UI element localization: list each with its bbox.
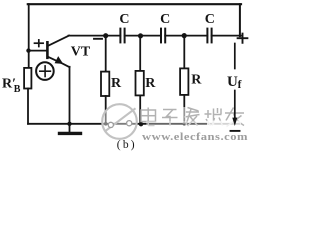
resistor R2	[136, 71, 144, 96]
watermark veils	[183, 107, 186, 124]
transistor VT emitter lead with arrow	[48, 57, 70, 67]
svg-text:B: B	[14, 84, 21, 95]
plus sign at output node	[238, 37, 248, 39]
node dot R3 bottom	[183, 122, 187, 126]
wire emitter vertical to ground rail	[69, 67, 71, 124]
wire R2 top lead	[139, 36, 141, 71]
wire R3 top lead	[183, 36, 185, 69]
transistor VT collector lead	[48, 36, 69, 46]
svg-text:www.elecfans.com: www.elecfans.com	[142, 132, 248, 143]
capacitor C1 plates	[119, 29, 121, 43]
node dot R3 top	[182, 33, 187, 38]
wire right vertical from top rail to output node	[239, 4, 241, 36]
wire left vertical upper (top rail to base node)	[28, 4, 30, 68]
wire collector / capacitor line segments	[69, 35, 121, 37]
svg-text:R: R	[191, 73, 202, 88]
capacitor C2 plates	[160, 29, 162, 43]
svg-text:f: f	[238, 79, 242, 91]
resistor R3	[180, 68, 188, 95]
wire base lead	[29, 50, 47, 52]
capacitor C3 plates	[206, 29, 208, 43]
wire R3 bottom lead	[183, 95, 185, 124]
svg-text:R: R	[145, 76, 156, 91]
wire R2 bottom lead	[139, 95, 141, 124]
wire top feedback rail	[28, 3, 241, 5]
source circle symbol with plus cross	[36, 62, 54, 80]
minus sign at collector node	[94, 38, 102, 40]
node dot collector/R1	[103, 33, 108, 38]
watermark chinese outlined glyphs	[141, 108, 244, 127]
plus sign at base	[35, 42, 44, 44]
wire R1 top lead	[105, 36, 107, 72]
minus sign at bottom right	[231, 130, 240, 132]
svg-text:C: C	[119, 12, 129, 27]
node dot R2 bottom	[139, 122, 143, 126]
svg-text:C: C	[160, 12, 170, 27]
wire R1 bottom lead	[105, 96, 107, 124]
node dot R2 top	[138, 33, 143, 38]
arrow Uf upper shaft	[234, 44, 236, 69]
svg-text:R: R	[111, 76, 122, 91]
svg-text:C: C	[205, 12, 215, 27]
svg-text:(b): (b)	[117, 139, 137, 151]
node dot ground junction	[67, 122, 71, 126]
node base junction dot	[26, 48, 30, 52]
ground symbol	[69, 124, 71, 132]
resistor R1	[101, 72, 109, 96]
node dot R1 bottom	[104, 122, 108, 126]
wire left vertical lower (R'B to bottom rail)	[27, 89, 29, 124]
svg-text:U: U	[227, 74, 238, 90]
watermark logo circle	[102, 104, 137, 139]
arrow Uf lower shaft and head	[234, 91, 236, 119]
transistor VT base bar	[46, 42, 49, 58]
svg-text:VT: VT	[71, 44, 91, 59]
resistor R'B	[24, 68, 31, 89]
wire bottom rail	[28, 123, 240, 125]
